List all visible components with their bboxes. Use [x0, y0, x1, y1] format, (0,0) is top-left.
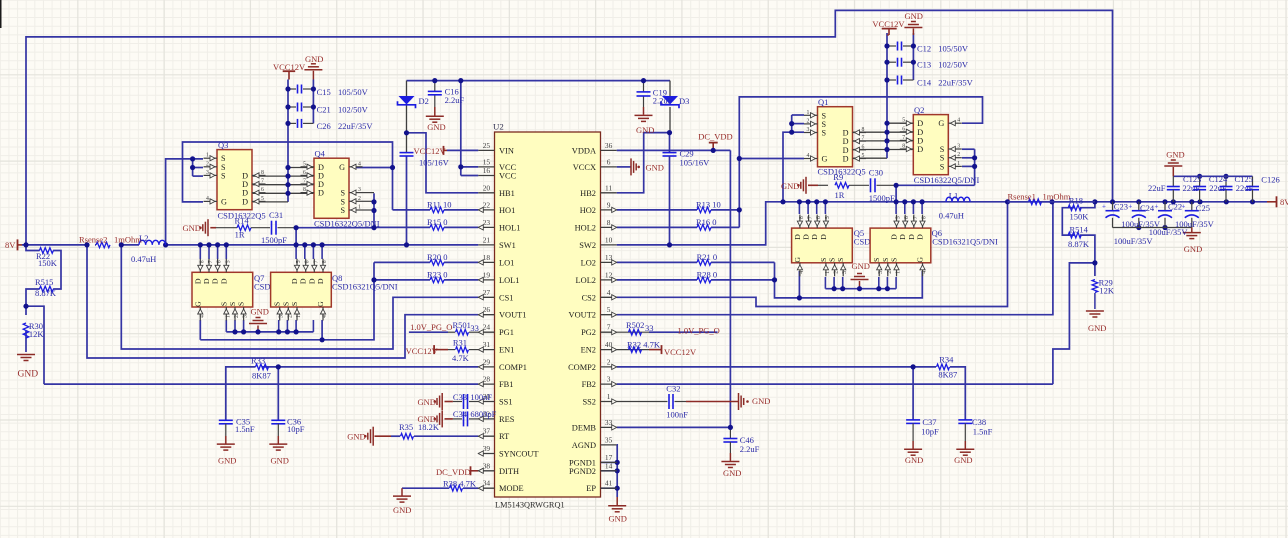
svg-text:5: 5: [296, 260, 302, 263]
svg-text:R11 10: R11 10: [427, 199, 451, 209]
svg-text:10: 10: [605, 235, 613, 244]
svg-text:3: 3: [957, 144, 960, 150]
svg-text:1: 1: [607, 392, 611, 401]
svg-text:7: 7: [808, 216, 814, 219]
svg-text:D: D: [907, 234, 916, 240]
svg-text:CS1: CS1: [499, 293, 513, 302]
svg-text:VOUT1: VOUT1: [499, 311, 526, 320]
svg-text:GND: GND: [418, 397, 436, 407]
svg-text:CS2: CS2: [582, 293, 596, 302]
svg-text:16: 16: [483, 166, 491, 175]
svg-text:L2: L2: [139, 233, 148, 243]
svg-text:VCC: VCC: [499, 172, 517, 181]
svg-text:FB2: FB2: [582, 380, 596, 389]
svg-text:1.5nF: 1.5nF: [235, 424, 255, 434]
svg-text:S: S: [340, 197, 345, 206]
svg-text:8K87: 8K87: [252, 371, 271, 381]
svg-text:D: D: [810, 234, 819, 240]
svg-text:GND: GND: [1088, 323, 1106, 333]
svg-text:23: 23: [483, 218, 491, 227]
svg-text:L1: L1: [949, 190, 958, 200]
svg-text:LOL1: LOL1: [499, 276, 519, 285]
svg-text:5: 5: [825, 216, 831, 219]
svg-text:D: D: [219, 278, 228, 284]
svg-text:7: 7: [902, 135, 905, 141]
svg-text:8: 8: [303, 187, 306, 193]
svg-text:1: 1: [957, 161, 960, 167]
svg-text:8: 8: [199, 260, 205, 263]
svg-text:EN2: EN2: [581, 346, 596, 355]
svg-text:4.7K: 4.7K: [452, 353, 470, 363]
svg-text:C32: C32: [666, 383, 680, 393]
svg-text:8.87K: 8.87K: [35, 288, 57, 298]
svg-text:2.2uF: 2.2uF: [445, 95, 465, 105]
svg-text:2.2uF: 2.2uF: [740, 444, 760, 454]
svg-text:CSD16321Q5/DNI: CSD16321Q5/DNI: [932, 237, 998, 247]
svg-text:D: D: [843, 155, 849, 164]
svg-text:2: 2: [957, 152, 960, 158]
svg-text:6: 6: [607, 157, 611, 166]
svg-text:D: D: [318, 189, 324, 198]
svg-text:CSD16322Q5/DNI: CSD16322Q5/DNI: [314, 219, 380, 229]
svg-text:1500pF: 1500pF: [261, 235, 287, 245]
svg-text:G: G: [221, 197, 227, 206]
svg-text:7: 7: [607, 323, 611, 332]
svg-text:1: 1: [825, 271, 831, 274]
svg-text:HO2: HO2: [580, 206, 596, 215]
svg-text:GND: GND: [852, 261, 870, 271]
svg-text:D: D: [242, 197, 248, 206]
svg-text:7: 7: [208, 260, 214, 263]
svg-text:6: 6: [303, 170, 306, 176]
svg-text:1.0V_PG_O: 1.0V_PG_O: [410, 322, 452, 332]
svg-text:GND: GND: [393, 505, 411, 515]
svg-text:C22: C22: [1168, 202, 1182, 212]
svg-text:S: S: [340, 206, 345, 215]
svg-text:D3: D3: [679, 96, 689, 106]
svg-text:DITH: DITH: [499, 467, 519, 476]
svg-text:0.47uH: 0.47uH: [939, 210, 964, 220]
svg-text:S: S: [940, 162, 945, 171]
svg-text:SW1: SW1: [499, 241, 516, 250]
svg-text:1.0V_PG_O: 1.0V_PG_O: [678, 326, 720, 336]
svg-text:C25: C25: [1196, 203, 1210, 213]
svg-text:18.2K: 18.2K: [418, 422, 440, 432]
svg-text:D: D: [843, 137, 849, 146]
svg-text:2: 2: [607, 357, 611, 366]
svg-text:3: 3: [279, 315, 285, 318]
svg-text:C33: C33: [453, 392, 467, 402]
svg-text:4: 4: [206, 196, 209, 202]
svg-text:C38: C38: [972, 417, 986, 427]
svg-text:C15: C15: [317, 87, 331, 97]
svg-text:GND: GND: [1184, 244, 1202, 254]
svg-text:S: S: [221, 171, 226, 180]
svg-text:HB1: HB1: [499, 189, 515, 198]
svg-text:34: 34: [483, 479, 491, 488]
svg-text:D: D: [290, 278, 299, 284]
svg-text:D: D: [793, 234, 802, 240]
svg-text:2: 2: [834, 271, 840, 274]
svg-text:2: 2: [358, 196, 361, 202]
svg-text:S: S: [940, 154, 945, 163]
svg-text:33: 33: [645, 323, 654, 333]
svg-text:33: 33: [470, 323, 479, 333]
svg-text:C23: C23: [1114, 202, 1128, 212]
svg-text:C13: C13: [917, 60, 931, 70]
svg-text:GND: GND: [18, 370, 39, 380]
svg-text:GND: GND: [905, 11, 923, 21]
svg-text:7: 7: [313, 260, 319, 263]
svg-text:24: 24: [483, 323, 491, 332]
svg-text:VDDA: VDDA: [572, 146, 596, 155]
svg-text:10pF: 10pF: [921, 427, 939, 437]
svg-text:2.2uF: 2.2uF: [653, 95, 673, 105]
svg-text:5: 5: [862, 153, 865, 159]
svg-text:13: 13: [605, 253, 613, 262]
svg-text:2: 2: [807, 118, 810, 124]
svg-text:1: 1: [225, 315, 231, 318]
svg-text:SS2: SS2: [582, 398, 596, 407]
svg-text:3: 3: [206, 170, 209, 176]
svg-text:D: D: [819, 234, 828, 240]
svg-text:8: 8: [607, 218, 611, 227]
svg-text:C37: C37: [922, 417, 936, 427]
svg-text:+: +: [1155, 203, 1159, 211]
svg-text:R32 4.7K: R32 4.7K: [627, 340, 661, 350]
svg-text:C26: C26: [317, 121, 331, 131]
svg-text:R514: R514: [1070, 224, 1089, 234]
svg-text:D: D: [211, 278, 220, 284]
svg-text:R38 4.7K: R38 4.7K: [443, 478, 477, 488]
svg-text:C14: C14: [917, 77, 932, 87]
svg-text:GND: GND: [271, 456, 289, 466]
svg-text:22uF/35V: 22uF/35V: [338, 121, 373, 131]
svg-text:EP: EP: [586, 484, 596, 493]
svg-text:105/50V: 105/50V: [338, 87, 369, 97]
svg-text:COMP2: COMP2: [568, 363, 596, 372]
svg-text:R21 0: R21 0: [697, 252, 718, 262]
svg-text:100nF: 100nF: [470, 392, 492, 402]
svg-text:100nF: 100nF: [666, 409, 688, 419]
svg-text:Rsense2: Rsense2: [79, 235, 107, 245]
svg-text:LO1: LO1: [499, 258, 514, 267]
svg-text:GND: GND: [646, 162, 664, 172]
svg-text:EN1: EN1: [499, 346, 514, 355]
svg-text:R13 10: R13 10: [696, 199, 721, 209]
svg-text:R28 0: R28 0: [697, 269, 718, 279]
svg-text:8V: 8V: [1280, 197, 1288, 207]
svg-text:R16 0: R16 0: [696, 217, 717, 227]
svg-text:12K: 12K: [1099, 285, 1115, 295]
svg-text:C31: C31: [269, 210, 283, 220]
svg-text:6: 6: [902, 126, 905, 132]
svg-text:1.5nF: 1.5nF: [973, 427, 993, 437]
svg-text:S: S: [890, 258, 899, 262]
svg-text:5: 5: [896, 216, 902, 219]
svg-text:6: 6: [816, 216, 822, 219]
svg-text:R20 0: R20 0: [427, 252, 448, 262]
svg-text:8: 8: [322, 260, 328, 263]
svg-text:D2: D2: [419, 96, 429, 106]
svg-text:5: 5: [607, 305, 611, 314]
svg-text:D: D: [242, 180, 248, 189]
svg-text:4: 4: [607, 288, 611, 297]
svg-text:R34: R34: [939, 355, 954, 365]
svg-text:25: 25: [483, 141, 491, 150]
svg-text:R31: R31: [453, 337, 467, 347]
svg-text:1: 1: [206, 153, 209, 159]
svg-text:HB2: HB2: [580, 189, 596, 198]
svg-text:2: 2: [234, 315, 240, 318]
svg-text:S: S: [881, 258, 890, 262]
svg-text:5: 5: [261, 196, 264, 202]
svg-text:G: G: [193, 301, 202, 307]
svg-text:6: 6: [862, 144, 865, 150]
svg-text:3: 3: [607, 375, 611, 384]
svg-text:3: 3: [878, 271, 884, 274]
svg-text:22uF: 22uF: [1236, 183, 1254, 193]
svg-text:22uF: 22uF: [1209, 183, 1227, 193]
svg-text:6: 6: [217, 260, 223, 263]
svg-text:41: 41: [605, 479, 613, 488]
svg-text:GND: GND: [347, 432, 365, 442]
svg-text:7: 7: [913, 216, 919, 219]
svg-text:COMP1: COMP1: [499, 363, 527, 372]
svg-text:6: 6: [305, 260, 311, 263]
svg-text:6: 6: [904, 216, 910, 219]
svg-text:RT: RT: [499, 432, 509, 441]
svg-text:GND: GND: [723, 468, 741, 478]
svg-text:S: S: [836, 258, 845, 262]
svg-text:12K: 12K: [29, 329, 45, 339]
svg-text:VCC12V: VCC12V: [273, 62, 306, 72]
svg-text:1: 1: [296, 315, 302, 318]
svg-text:18: 18: [483, 253, 491, 262]
svg-text:1: 1: [896, 271, 902, 274]
svg-text:4: 4: [199, 315, 205, 318]
svg-text:R15 0: R15 0: [427, 217, 448, 227]
svg-text:R501: R501: [453, 320, 471, 330]
svg-text:100uF/35V: 100uF/35V: [1175, 219, 1215, 229]
svg-text:Q3: Q3: [218, 140, 228, 150]
svg-text:R14: R14: [235, 216, 250, 226]
svg-text:MODE: MODE: [499, 484, 524, 493]
svg-text:S: S: [819, 258, 828, 262]
svg-text:1500pF: 1500pF: [869, 193, 895, 203]
svg-text:HOL1: HOL1: [499, 223, 520, 232]
svg-text:5: 5: [902, 118, 905, 124]
svg-text:2: 2: [887, 271, 893, 274]
svg-text:SYNCOUT: SYNCOUT: [499, 450, 539, 459]
svg-text:12: 12: [605, 270, 613, 279]
svg-text:G: G: [793, 257, 802, 263]
svg-text:PGND2: PGND2: [569, 467, 596, 476]
svg-text:3: 3: [807, 127, 810, 133]
svg-text:PG2: PG2: [581, 328, 596, 337]
svg-text:40: 40: [605, 340, 613, 349]
svg-text:GND: GND: [752, 396, 770, 406]
svg-text:22: 22: [483, 200, 491, 209]
svg-text:22uF/35V: 22uF/35V: [938, 77, 973, 87]
svg-text:G: G: [822, 155, 828, 164]
svg-text:0.47uH: 0.47uH: [131, 254, 156, 264]
svg-text:4: 4: [322, 315, 328, 318]
svg-text:150K: 150K: [1070, 211, 1090, 221]
svg-text:LO2: LO2: [581, 258, 596, 267]
svg-text:GND: GND: [781, 181, 799, 191]
svg-text:R515: R515: [35, 277, 53, 287]
svg-text:5: 5: [303, 161, 306, 167]
svg-text:VIN: VIN: [499, 146, 514, 155]
svg-text:8: 8: [261, 170, 264, 176]
svg-text:GND: GND: [636, 125, 654, 135]
svg-text:5: 5: [225, 260, 231, 263]
svg-text:G: G: [916, 257, 925, 263]
svg-text:GND: GND: [251, 306, 269, 316]
svg-text:DEMB: DEMB: [572, 423, 597, 432]
svg-text:Q2: Q2: [914, 105, 924, 115]
svg-text:GND: GND: [305, 54, 323, 64]
svg-text:9: 9: [607, 200, 611, 209]
svg-text:8.87K: 8.87K: [1068, 239, 1090, 249]
svg-text:S: S: [290, 302, 299, 306]
svg-text:7: 7: [862, 136, 865, 142]
svg-text:22uF: 22uF: [1148, 183, 1166, 193]
svg-text:4: 4: [799, 271, 805, 274]
svg-text:D: D: [843, 146, 849, 155]
svg-text:21: 21: [483, 235, 491, 244]
svg-text:Q1: Q1: [818, 97, 828, 107]
svg-text:R23 0: R23 0: [427, 269, 448, 279]
svg-text:29: 29: [483, 357, 491, 366]
svg-text:4: 4: [922, 271, 928, 274]
svg-text:R502: R502: [626, 320, 644, 330]
svg-text:1: 1: [807, 110, 810, 116]
svg-text:S: S: [237, 302, 246, 306]
svg-text:26: 26: [483, 305, 491, 314]
svg-text:VCC12V: VCC12V: [664, 347, 697, 357]
svg-text:FB1: FB1: [499, 380, 513, 389]
svg-text:CSD16322Q5/DNI: CSD16322Q5/DNI: [914, 175, 980, 185]
svg-text:S: S: [822, 129, 827, 138]
svg-text:7: 7: [261, 179, 264, 185]
svg-text:8V: 8V: [5, 240, 16, 250]
svg-text:LM5143QRWGRQ1: LM5143QRWGRQ1: [495, 501, 565, 510]
svg-text:2: 2: [206, 161, 209, 167]
svg-text:G: G: [339, 163, 345, 172]
svg-text:22uF: 22uF: [1183, 183, 1201, 193]
svg-text:VCC12V: VCC12V: [414, 146, 447, 156]
svg-text:SS1: SS1: [499, 398, 513, 407]
svg-text:27: 27: [483, 288, 491, 297]
svg-text:LOL2: LOL2: [576, 276, 596, 285]
svg-text:14: 14: [605, 461, 613, 470]
svg-text:100uF/35V: 100uF/35V: [1114, 236, 1154, 246]
svg-text:36: 36: [605, 141, 613, 150]
svg-text:28: 28: [483, 375, 491, 384]
svg-text:AGND: AGND: [572, 441, 596, 450]
svg-text:R9: R9: [833, 172, 843, 182]
svg-text:39: 39: [483, 444, 491, 453]
svg-text:C30: C30: [869, 167, 883, 177]
svg-text:R18: R18: [1069, 195, 1083, 205]
svg-text:4: 4: [358, 161, 361, 167]
svg-text:150K: 150K: [38, 258, 58, 268]
svg-text:8: 8: [862, 127, 865, 133]
svg-text:D: D: [193, 278, 202, 284]
svg-text:1mOhm: 1mOhm: [1043, 192, 1071, 202]
svg-text:38: 38: [483, 461, 491, 470]
svg-text:10pF: 10pF: [287, 424, 305, 434]
svg-text:VCCX: VCCX: [573, 163, 596, 172]
svg-text:C12: C12: [917, 43, 931, 53]
svg-text:1R: 1R: [235, 229, 245, 239]
svg-text:8: 8: [799, 216, 805, 219]
svg-text:C126: C126: [1261, 175, 1279, 185]
svg-text:3: 3: [358, 187, 361, 193]
svg-text:D: D: [307, 278, 316, 284]
svg-text:+: +: [1102, 203, 1106, 211]
svg-text:105/16V: 105/16V: [419, 158, 450, 168]
svg-text:CSD16321Q5/DNI: CSD16321Q5/DNI: [332, 282, 398, 292]
svg-text:GND: GND: [905, 455, 923, 465]
svg-text:GND: GND: [218, 456, 236, 466]
svg-text:R35: R35: [399, 422, 413, 432]
svg-text:35: 35: [605, 435, 613, 444]
svg-text:19: 19: [483, 270, 491, 279]
svg-text:DC_VDD: DC_VDD: [698, 132, 732, 142]
svg-text:3: 3: [243, 315, 249, 318]
svg-text:31: 31: [483, 340, 491, 349]
svg-text:GND: GND: [427, 122, 445, 132]
svg-text:G: G: [316, 301, 325, 307]
svg-text:8K87: 8K87: [938, 370, 957, 380]
svg-text:102/50V: 102/50V: [938, 60, 969, 70]
svg-text:VOUT2: VOUT2: [569, 311, 596, 320]
svg-text:1R: 1R: [835, 190, 845, 200]
svg-text:3: 3: [842, 271, 848, 274]
svg-text:11: 11: [605, 183, 612, 192]
svg-text:GND: GND: [183, 223, 201, 233]
svg-text:37: 37: [483, 427, 491, 436]
svg-text:105/16V: 105/16V: [680, 158, 711, 168]
svg-text:GND: GND: [954, 455, 972, 465]
svg-text:6800pF: 6800pF: [470, 409, 496, 419]
svg-text:8: 8: [922, 216, 928, 219]
svg-text:S: S: [281, 302, 290, 306]
svg-text:HO1: HO1: [499, 206, 515, 215]
svg-text:Q4: Q4: [315, 149, 326, 159]
svg-text:C21: C21: [317, 105, 331, 115]
svg-text:7: 7: [303, 179, 306, 185]
svg-text:33: 33: [605, 418, 613, 427]
svg-text:Rsense1: Rsense1: [1008, 192, 1036, 202]
svg-text:102/50V: 102/50V: [338, 105, 369, 115]
svg-text:SW2: SW2: [579, 241, 596, 250]
svg-text:GND: GND: [609, 514, 627, 524]
svg-text:DC_VDD: DC_VDD: [436, 467, 470, 477]
svg-text:GND: GND: [1166, 150, 1184, 160]
svg-text:105/50V: 105/50V: [938, 43, 969, 53]
svg-text:2: 2: [287, 315, 293, 318]
svg-text:D: D: [890, 234, 899, 240]
svg-text:+: +: [1128, 203, 1132, 211]
svg-text:HOL2: HOL2: [575, 223, 596, 232]
svg-text:C24: C24: [1140, 203, 1155, 213]
svg-text:20: 20: [483, 183, 491, 192]
svg-text:4: 4: [807, 153, 810, 159]
